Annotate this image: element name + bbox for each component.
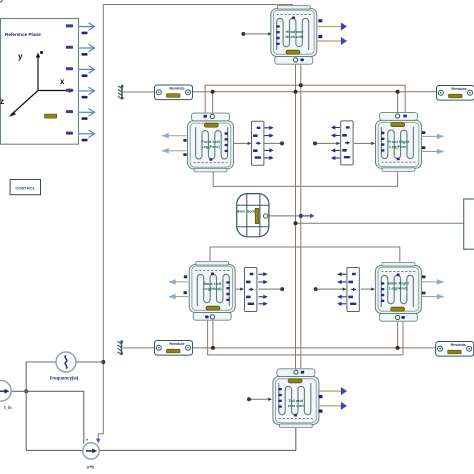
svg-text:CONTROL: CONTROL <box>15 186 35 191</box>
svg-text:y: y <box>18 52 23 61</box>
svg-text:Reference Plane: Reference Plane <box>5 32 41 37</box>
svg-text:Neck unit: Neck unit <box>285 34 304 39</box>
svg-text:rear unit: rear unit <box>288 403 305 408</box>
svg-text:Leg(Hind): Leg(Hind) <box>389 286 408 291</box>
svg-text:a+b: a+b <box>87 465 95 470</box>
svg-text:+: + <box>86 438 89 443</box>
svg-text:x: x <box>60 77 65 86</box>
svg-text:Frequency(w): Frequency(w) <box>50 376 79 381</box>
svg-text:Main Body: Main Body <box>236 208 257 213</box>
svg-text:z: z <box>0 97 4 106</box>
svg-text:t_in: t_in <box>4 405 12 410</box>
svg-text:Leg(Fore): Leg(Fore) <box>201 144 220 149</box>
svg-text:Leg(Hind): Leg(Hind) <box>203 286 222 291</box>
svg-text:Leg(Fore): Leg(Fore) <box>389 144 408 149</box>
